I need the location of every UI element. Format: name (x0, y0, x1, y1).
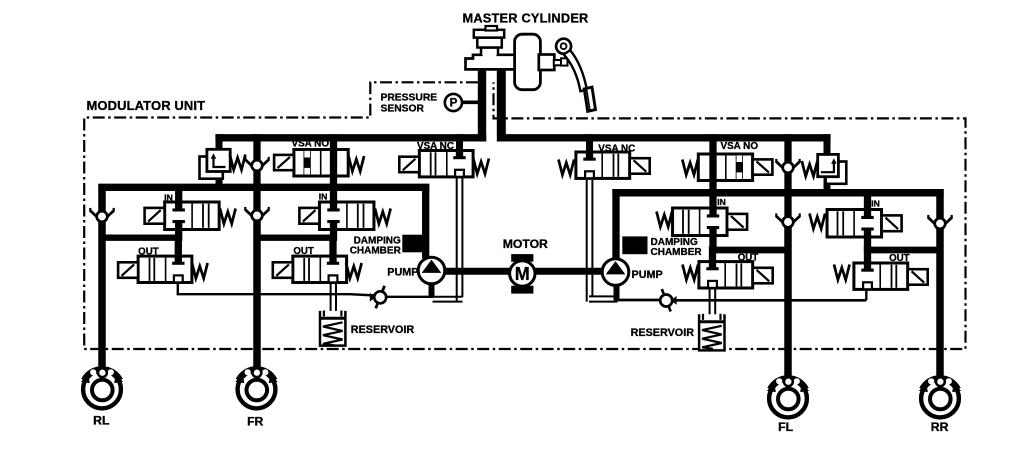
wire: FL column lower (784, 227, 792, 383)
svg-text:PRESSURE: PRESSURE (381, 93, 438, 104)
wire: IN3 bottom stub (709, 235, 716, 253)
svg-text:MODULATOR UNIT: MODULATOR UNIT (87, 98, 206, 113)
svg-text:IN: IN (871, 199, 880, 209)
brake booster (515, 34, 541, 89)
wire: right secondary bus (612, 189, 943, 197)
wire: right pump suction stub (614, 285, 620, 301)
svg-text:VSA NC: VSA NC (598, 144, 635, 155)
svg-text:PUMP: PUMP (632, 269, 663, 281)
svg-text:VSA NC: VSA NC (417, 141, 454, 152)
wire: right return line (616, 299, 662, 302)
wire: OUT3 outlet / right reservoir stem (709, 287, 711, 320)
solenoid valve OUT 4 (854, 262, 928, 289)
wire: RR column (936, 189, 944, 219)
svg-text:MOTOR: MOTOR (503, 237, 548, 251)
svg-text:CHAMBER: CHAMBER (350, 246, 402, 257)
wire: FL-IN3 jog (710, 247, 792, 254)
svg-text:FR: FR (247, 415, 263, 429)
spring VSA NO left (349, 156, 365, 171)
wire: VSA NC left outlet double line (456, 177, 458, 302)
wire: motor shaft (443, 268, 603, 275)
spring OUT2 (346, 263, 362, 278)
wire: left return after check valve (386, 296, 434, 298)
booster output cylinder (539, 55, 555, 71)
reservoir right (699, 314, 724, 351)
spring IN1 (220, 209, 236, 224)
wire: VSA NO right through column + IN3 top (709, 134, 716, 209)
wire: VSA NC right outlet double line (586, 180, 588, 302)
solenoid valve VSA NO right (698, 153, 772, 182)
svg-text:RL: RL (93, 413, 110, 427)
wire: OUT4 inlet stub (864, 247, 871, 265)
check valve RR column (928, 215, 951, 229)
motor (510, 254, 535, 294)
pedal pad (584, 87, 595, 111)
master cylinder reservoir (477, 38, 502, 48)
svg-text:RR: RR (931, 420, 949, 434)
spring relief left (230, 155, 246, 170)
spring IN2 (375, 209, 391, 224)
solenoid valve VSA NO left (274, 149, 348, 178)
wire: OUT3 inlet stub (709, 247, 716, 263)
svg-text:P: P (450, 98, 458, 110)
pedal pivot (556, 39, 571, 54)
relief valve right (818, 154, 847, 183)
svg-text:IN: IN (319, 191, 328, 201)
spring VSA NO right (682, 160, 698, 175)
pump left (418, 257, 445, 284)
wire: left main bus (215, 134, 486, 141)
svg-text:VSA NO: VSA NO (721, 141, 759, 152)
wire: IN4 stubs (864, 189, 871, 211)
solenoid valve OUT 3 (699, 261, 773, 288)
master cylinder body (466, 55, 517, 70)
reservoir left (320, 311, 345, 346)
wire: FR column upper (253, 134, 260, 161)
spring OUT1 (192, 263, 208, 278)
svg-text:SENSOR: SENSOR (381, 104, 425, 115)
wire: left pump suction stub (429, 284, 435, 298)
wire: OUT2 outlet / reservoir stem double line (330, 282, 332, 317)
svg-text:IN: IN (717, 197, 726, 207)
wire: RL column (98, 184, 106, 212)
damping chamber left (402, 235, 427, 253)
check valve at relief left (245, 157, 268, 171)
svg-text:OUT: OUT (889, 253, 910, 264)
svg-text:RESERVOIR: RESERVOIR (351, 324, 415, 336)
spring IN4 (810, 214, 826, 229)
svg-text:FL: FL (778, 420, 793, 434)
spring IN3 (657, 212, 673, 227)
wire: VSA NC left inlet stub (456, 134, 463, 151)
wire: OUT4 outlet down (865, 289, 867, 300)
spring OUT3 (683, 265, 699, 280)
wire: left secondary bus (98, 184, 429, 191)
solenoid valve VSA NC left (399, 150, 473, 177)
master cylinder reservoir neck (481, 48, 498, 56)
wire: right relief column (824, 134, 831, 155)
wire: FL column upper (784, 134, 791, 163)
solenoid valve IN 1 (145, 201, 220, 230)
check valve left return line (370, 286, 386, 309)
check valve FL column (776, 213, 799, 227)
wire: FR column lower (253, 220, 261, 372)
spring OUT4 (834, 265, 850, 280)
svg-text:OUT: OUT (738, 252, 759, 263)
spring relief right (802, 161, 818, 176)
svg-text:VSA NO: VSA NO (292, 139, 330, 150)
wire: right pump column (612, 189, 619, 261)
damping chamber right (622, 236, 647, 254)
pedal arm (564, 50, 587, 91)
wire: right main bus (497, 134, 831, 141)
wheel FR (236, 368, 278, 408)
svg-text:IN: IN (164, 192, 173, 202)
svg-text:OUT: OUT (293, 246, 314, 257)
wire: master cylinder secondary pipe (497, 66, 506, 141)
solenoid valve IN 3 (673, 207, 748, 236)
solenoid valve OUT 1 (118, 255, 192, 282)
svg-text:M: M (515, 264, 530, 284)
wire: RR-IN4 jog (864, 247, 944, 254)
svg-text:PUMP: PUMP (387, 267, 418, 279)
wire: OUT2 inlet stub (329, 235, 336, 258)
spring VSA NC right (559, 160, 575, 175)
check valve FR column (245, 207, 268, 221)
check valve at relief right (776, 159, 799, 173)
wire: IN2 bottom stub (330, 229, 337, 241)
solenoid valve VSA NC right (576, 151, 650, 178)
check valve right return line (660, 289, 676, 312)
reservoir cap knob (486, 26, 498, 31)
wire: left pump column (422, 184, 429, 259)
svg-text:CHAMBER: CHAMBER (651, 247, 703, 258)
wire: RL-IN1 jog (99, 235, 182, 241)
wire: VSA NO left through column + IN2 top (330, 134, 337, 203)
wire: VSA NC right inlet stub (586, 134, 593, 153)
wire: left relief column (216, 134, 223, 150)
wheel FL (767, 377, 809, 417)
wire: IN1 stubs (175, 184, 182, 203)
wheel RR (919, 377, 961, 417)
wire: right suction double line horizontal (589, 295, 618, 297)
relief valve left (200, 149, 231, 178)
svg-text:OUT: OUT (138, 246, 159, 257)
pushrod (554, 60, 564, 65)
svg-text:MASTER CYLINDER: MASTER CYLINDER (463, 10, 589, 25)
spring VSA NC left (473, 159, 489, 174)
solenoid valve IN 4 (827, 209, 902, 238)
pump right (602, 259, 629, 286)
svg-text:RESERVOIR: RESERVOIR (631, 327, 695, 339)
wire: OUT1 outlet down (177, 282, 179, 293)
solenoid valve IN 2 (299, 201, 374, 230)
reservoir cap plate (474, 30, 504, 38)
check valve RL column (90, 208, 113, 222)
solenoid valve OUT 2 (273, 255, 347, 282)
wire: left suction double line horizontal (433, 296, 463, 298)
wheel RL (81, 368, 123, 408)
modulator unit dashed boundary (84, 82, 965, 349)
wire: OUT1 inlet stub (175, 235, 182, 258)
pressure sensor (445, 94, 479, 111)
wire: FR-IN2 jog (254, 235, 337, 241)
wire: left return line to suction (177, 294, 376, 295)
wire: master cylinder primary pipe (478, 66, 486, 141)
